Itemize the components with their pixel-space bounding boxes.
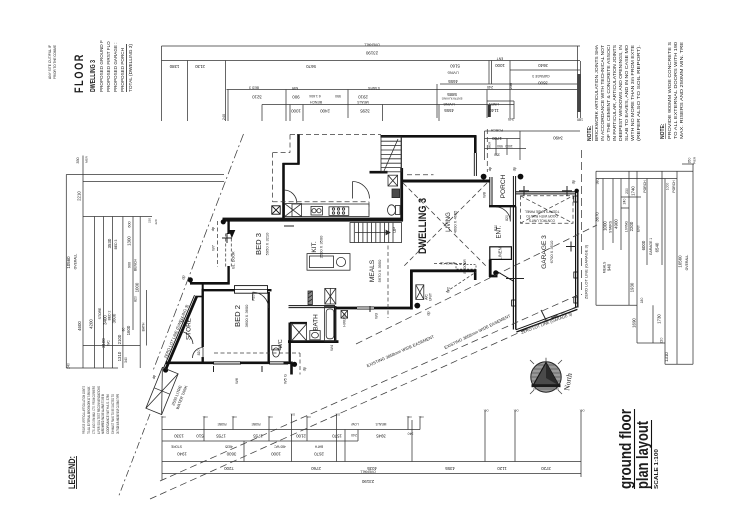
svg-text:PORCH: PORCH — [643, 180, 647, 193]
svg-text:23190: 23190 — [365, 51, 378, 56]
svg-text:1140: 1140 — [489, 108, 499, 113]
svg-text:2130: 2130 — [195, 64, 205, 69]
boundary dash-dot west — [153, 134, 244, 372]
svg-text:550: 550 — [335, 94, 341, 98]
svg-text:3490: 3490 — [553, 136, 563, 141]
svg-text:180: 180 — [640, 298, 644, 304]
svg-text:GARAGE 3: GARAGE 3 — [532, 74, 549, 78]
wall meals south — [335, 307, 413, 310]
svg-text:4200: 4200 — [89, 319, 94, 329]
riser top marks — [160, 409, 584, 420]
roof dash wip — [368, 202, 370, 217]
svg-text:IN ACCORDANCE WITH TECHNICAL N: IN ACCORDANCE WITH TECHNICAL NOT — [600, 44, 605, 141]
svg-text:6 1.604: 6 1.604 — [309, 94, 320, 98]
staircase lower flight — [350, 223, 402, 243]
stair up arrow — [355, 232, 390, 234]
store door arc — [182, 332, 194, 345]
wall chimney vertical — [297, 134, 300, 165]
svg-text:BI. DOOR: BI. DOOR — [463, 259, 467, 274]
wall linen room — [490, 247, 512, 260]
living roof cross B — [403, 183, 487, 267]
svg-text:180: 180 — [577, 118, 583, 122]
svg-text:TO ALL EXTERNAL DOORS WITH 190: TO ALL EXTERNAL DOORS WITH 190 — [673, 41, 678, 139]
tick verticals top chains — [161, 46, 163, 121]
boundary dash lower-left — [118, 414, 150, 498]
svg-text:PROPOSED GARAGE :: PROPOSED GARAGE : — [113, 42, 118, 92]
svg-text:BATH: BATH — [142, 322, 146, 331]
svg-text:PORCH: PORCH — [500, 174, 507, 198]
svg-text:1310: 1310 — [117, 351, 122, 361]
svg-text:OG.: OG. — [513, 409, 518, 413]
dim line garage right short — [510, 69, 580, 71]
svg-text:2760: 2760 — [311, 466, 321, 471]
wall bath north double — [289, 305, 336, 307]
svg-text:PORCH: PORCH — [672, 180, 676, 193]
svg-text:OF THE CEMENT & CONCRETE ASSOC: OF THE CEMENT & CONCRETE ASSOCI — [606, 45, 611, 141]
svg-text:1000: 1000 — [603, 221, 608, 231]
svg-text:STORE: STORE — [98, 307, 102, 319]
svg-text:2100: 2100 — [101, 338, 106, 348]
svg-text:1300: 1300 — [127, 236, 132, 246]
svg-text:5950 X 3210: 5950 X 3210 — [265, 232, 270, 255]
svg-text:2910: 2910 — [358, 95, 368, 100]
svg-text:340: 340 — [124, 357, 128, 363]
window w3 in meals wall — [357, 307, 374, 310]
svg-text:OVERALL: OVERALL — [74, 254, 78, 270]
svg-text:WITH NO MORE THAN 3m FROM EXTE: WITH NO MORE THAN 3m FROM EXTE — [630, 45, 635, 141]
svg-text:ZERO LOT LINE (GARAGE 3): ZERO LOT LINE (GARAGE 3) — [584, 244, 589, 299]
dp dot bed3 nw — [221, 219, 226, 224]
downpipe junction dots — [163, 174, 579, 373]
svg-text:1730: 1730 — [657, 314, 662, 324]
row D line — [162, 473, 581, 475]
svg-text:240: 240 — [222, 114, 226, 120]
wall wc north — [290, 322, 307, 324]
svg-text:OG.: OG. — [290, 413, 295, 417]
svg-text:820: 820 — [134, 296, 138, 302]
svg-text:3670: 3670 — [595, 212, 600, 222]
svg-text:6540: 6540 — [655, 242, 660, 252]
svg-text:dp: dp — [210, 226, 215, 231]
svg-text:MAX. RISERS AND 250MM MIN. TRE: MAX. RISERS AND 250MM MIN. TRE — [679, 42, 684, 139]
svg-text:1690: 1690 — [632, 318, 637, 328]
svg-text:3945: 3945 — [376, 434, 386, 439]
zero lot dashed garage east — [581, 150, 583, 295]
svg-text:OUTSIDE AIR AND BE SELF CLOSIN: OUTSIDE AIR AND BE SELF CLOSING TYPE — [115, 394, 120, 434]
wall wip north — [370, 171, 388, 174]
svg-text:LOW: LOW — [351, 422, 358, 426]
svg-text:NOTE:: NOTE: — [587, 125, 593, 141]
right chain verticals — [595, 171, 597, 305]
svg-text:BATH: BATH — [313, 314, 320, 331]
dp dot tank top — [163, 367, 168, 372]
svg-text:2210: 2210 — [77, 191, 82, 201]
svg-text:1000: 1000 — [291, 109, 301, 114]
svg-text:LIVING: LIVING — [447, 71, 458, 75]
overall vertical — [65, 175, 67, 369]
north ticks — [530, 358, 562, 394]
svg-text:dp: dp — [151, 374, 156, 379]
svg-text:STAIRS: STAIRS — [609, 220, 613, 233]
top connectors — [66, 174, 224, 176]
svg-text:1000: 1000 — [666, 183, 670, 191]
pier hatch bath-meals corner — [341, 311, 348, 319]
svg-text:OG.: OG. — [406, 415, 411, 419]
svg-text:950: 950 — [497, 144, 503, 148]
svg-text:OG.: OG. — [483, 409, 488, 413]
note block 1: brickwork articulation — [587, 44, 641, 141]
wall bed3 west upper — [227, 220, 229, 235]
pier bumps garage — [574, 196, 578, 202]
svg-text:plan layout: plan layout — [633, 421, 652, 489]
hatched pier bath window — [308, 291, 312, 305]
svg-text:W2: W2 — [446, 286, 451, 293]
svg-text:1930: 1930 — [630, 282, 635, 292]
svg-text:MEALS: MEALS — [369, 259, 376, 282]
svg-text:4555: 4555 — [444, 108, 454, 113]
roof dash north parapet — [290, 134, 381, 136]
dim line second — [162, 60, 581, 62]
second vertical — [82, 156, 84, 369]
svg-text:W7: W7 — [211, 244, 216, 251]
svg-text:ENT: ENT — [497, 57, 504, 61]
svg-text:STAIRS: STAIRS — [367, 86, 380, 90]
svg-text:PROPOSED PORCH: PROPOSED PORCH — [120, 48, 125, 92]
svg-text:LIVING: LIVING — [446, 212, 452, 232]
svg-text:OG.: OG. — [305, 415, 310, 419]
svg-text:LIVING: LIVING — [443, 102, 454, 106]
svg-text:LINEN: LINEN — [498, 247, 503, 259]
wall porch west double — [489, 177, 491, 207]
svg-text:1755: 1755 — [216, 434, 226, 439]
svg-text:900: 900 — [128, 262, 132, 268]
svg-text:IN PARTICULAR, ARTICULATION JO: IN PARTICULAR, ARTICULATION JOINTS — [612, 45, 617, 141]
dp dot garage ne — [575, 189, 579, 193]
svg-text:220: 220 — [660, 338, 664, 344]
roof dash chimney top — [289, 135, 291, 153]
upper floor dash meals — [387, 246, 389, 319]
svg-text:BED 3: BED 3 — [114, 239, 118, 249]
bed2 entry door arc — [193, 348, 204, 359]
svg-text:dp: dp — [181, 275, 186, 280]
wall bed3 west lower — [227, 266, 229, 285]
svg-text:FLOOR: FLOOR — [74, 53, 86, 93]
dp dot wc corner — [292, 362, 297, 367]
tick a1 kitchen — [284, 225, 294, 227]
svg-text:dp: dp — [571, 179, 576, 184]
svg-text:ENTRY/LIVING: ENTRY/LIVING — [441, 97, 462, 101]
north circle — [531, 362, 561, 392]
wip door arc — [353, 182, 370, 199]
dp dot ent corner — [493, 270, 498, 275]
svg-text:GARAGE 1: GARAGE 1 — [649, 238, 653, 255]
wall ent north — [489, 205, 516, 207]
svg-text:4600: 4600 — [77, 321, 82, 331]
svg-text:230: 230 — [625, 188, 629, 194]
svg-text:BED 3: BED 3 — [254, 233, 263, 255]
wall garage chamfer — [516, 307, 577, 330]
tick bed2 south — [213, 366, 215, 372]
svg-text:DOOR WITH R/AUTO: DOOR WITH R/AUTO — [526, 214, 558, 218]
tick garage mid a — [566, 246, 576, 248]
svg-text:2500 X 3500: 2500 X 3500 — [319, 235, 324, 258]
svg-text:OVERALL: OVERALL — [685, 255, 689, 271]
wall wc east — [289, 323, 291, 363]
svg-text:1000: 1000 — [271, 452, 281, 457]
wall bed2 south with windows — [166, 361, 215, 364]
wall long north band — [223, 218, 404, 222]
svg-text:820: 820 — [197, 350, 201, 356]
legend block bottom-left — [67, 386, 120, 489]
svg-text:WC: WC — [278, 339, 284, 348]
note block 2: concrete steps — [660, 41, 684, 139]
bed2 robe door arc — [253, 292, 269, 308]
svg-text:230: 230 — [509, 83, 513, 89]
dim line living 4655 — [440, 83, 580, 85]
svg-text:W8: W8 — [482, 191, 487, 198]
wall store north stub — [196, 296, 204, 298]
svg-text:LINEN: LINEN — [488, 102, 499, 106]
wall bed3 southwest from dp — [190, 282, 230, 285]
svg-text:1000: 1000 — [135, 282, 140, 292]
cooktop — [329, 207, 349, 216]
easement dash upper — [356, 225, 597, 344]
wall meals east vertical — [410, 270, 413, 310]
svg-text:OG.: OG. — [579, 409, 584, 413]
svg-text:1120: 1120 — [497, 466, 507, 471]
roof dash over kitchen bench — [273, 201, 369, 203]
roof dash kitchen west — [272, 153, 274, 202]
tick w7 — [222, 237, 232, 239]
svg-text:820: 820 — [505, 215, 509, 221]
svg-text:240: 240 — [67, 363, 71, 369]
svg-text:W5 G: W5 G — [283, 374, 288, 384]
wall garage west double — [512, 207, 514, 330]
svg-text:600: 600 — [128, 221, 132, 227]
svg-text:STORE: STORE — [186, 318, 193, 340]
svg-text:OVERALL: OVERALL — [364, 43, 380, 47]
svg-text:10560: 10560 — [678, 255, 683, 268]
svg-text:PIER: PIER — [693, 156, 697, 164]
bi-fold door dashed meals — [434, 263, 466, 265]
svg-text:SLAB TO EAVES, AND IN NO CASE: SLAB TO EAVES, AND IN NO CASE MO — [624, 44, 629, 141]
svg-text:6000: 6000 — [641, 240, 646, 250]
svg-text:5160: 5160 — [450, 63, 460, 68]
totals underline — [126, 44, 128, 92]
bath tub — [324, 307, 335, 342]
svg-text:R20: R20 — [252, 294, 256, 300]
sink — [311, 206, 322, 215]
robe recess bed2 — [235, 286, 268, 294]
svg-text:BRICKWORK ARTICULATION JOINTS: BRICKWORK ARTICULATION JOINTS SHA — [594, 45, 599, 141]
svg-text:dp: dp — [487, 166, 492, 171]
svg-text:1740: 1740 — [631, 186, 636, 196]
north triangle — [533, 363, 559, 386]
svg-text:MEALS: MEALS — [357, 100, 369, 104]
sliding door bed3 dashed — [225, 234, 227, 267]
kitchen door arc west — [284, 190, 297, 203]
svg-text:5670 X 3950: 5670 X 3950 — [377, 259, 382, 282]
garage panel door dashed box — [521, 196, 574, 223]
wall porch east double — [512, 176, 514, 207]
svg-text:MER: MER — [488, 141, 492, 149]
svg-text:WC: WC — [107, 340, 111, 346]
wall elbow horizontal — [283, 163, 300, 165]
riser ticks above row A — [161, 417, 163, 481]
right chain horizontals — [596, 170, 693, 172]
wall step store/bed2 — [202, 283, 204, 290]
svg-text:(REFER ALSO TO SOIL REPORT).: (REFER ALSO TO SOIL REPORT). — [636, 45, 641, 141]
svg-text:LIVING: LIVING — [625, 221, 629, 232]
svg-text:940: 940 — [607, 263, 612, 271]
svg-text:1570: 1570 — [332, 434, 342, 439]
tick garage left a — [506, 278, 524, 280]
svg-text:1940: 1940 — [177, 452, 187, 457]
wall zero lot diagonal store — [166, 296, 197, 369]
tick chamfer a — [541, 310, 546, 320]
svg-text:ENT: ENT — [637, 225, 641, 232]
svg-text:DEEPEST WINDOWS AND OPENINGS,: DEEPEST WINDOWS AND OPENINGS, IN — [618, 45, 623, 141]
svg-text:2100: 2100 — [117, 334, 122, 344]
mid connector — [83, 216, 152, 218]
svg-text:LEGEND:: LEGEND: — [67, 456, 77, 489]
svg-text:PROPOSED FIRST FLO: PROPOSED FIRST FLO — [106, 41, 111, 92]
wall bath east — [334, 306, 336, 342]
drawing title bottom-right — [616, 409, 660, 489]
wall bed2 west — [201, 289, 203, 347]
svg-text:340: 340 — [408, 432, 414, 436]
svg-text:CONTROL UNITS: CONTROL UNITS — [529, 219, 555, 223]
svg-text:HWU/SL: HWU/SL — [343, 313, 347, 326]
svg-text:480 WC: 480 WC — [274, 445, 286, 449]
svg-text:5670: 5670 — [306, 64, 316, 69]
wall ent-garage diagonal — [498, 272, 514, 282]
wip hatch shelf — [388, 175, 398, 186]
svg-text:GARAGE 3: GARAGE 3 — [541, 235, 548, 269]
svg-text:510: 510 — [196, 434, 204, 439]
svg-text:PRIOR TO THE COMME: PRIOR TO THE COMME — [53, 45, 57, 79]
svg-text:BENCH: BENCH — [134, 259, 138, 271]
svg-text:STORE: STORE — [171, 445, 182, 449]
svg-text:ROBE: ROBE — [217, 422, 226, 426]
svg-text:240: 240 — [623, 199, 627, 205]
svg-text:NOTE:: NOTE: — [660, 123, 666, 139]
dp dot porch west — [481, 174, 487, 180]
roof dash kitchen north-west — [273, 152, 290, 154]
inner verticals — [93, 217, 95, 369]
svg-text:4355: 4355 — [445, 466, 455, 471]
svg-text:PROPOSED GROUND F: PROPOSED GROUND F — [99, 40, 104, 92]
svg-text:BED 3: BED 3 — [249, 86, 259, 90]
svg-text:2200: 2200 — [629, 221, 634, 231]
water tank — [146, 367, 178, 414]
svg-text:OG.: OG. — [160, 415, 165, 419]
svg-text:W3: W3 — [374, 312, 379, 319]
svg-text:OG.: OG. — [231, 415, 236, 419]
dim line linen short — [487, 100, 514, 102]
svg-text:dp: dp — [512, 166, 517, 171]
svg-text:900: 900 — [292, 95, 300, 100]
svg-text:1310: 1310 — [664, 352, 669, 362]
row A line — [162, 429, 420, 431]
title block: top-left sheet notes — [48, 40, 133, 93]
svg-text:4835: 4835 — [225, 445, 233, 449]
svg-text:BED 2: BED 2 — [233, 305, 242, 327]
island bench — [307, 254, 350, 271]
dp dot meals se — [414, 303, 420, 309]
wc pan — [273, 348, 280, 357]
upper floor dash bed3 west — [217, 221, 219, 267]
svg-text:BATH: BATH — [314, 445, 323, 449]
svg-text:350: 350 — [494, 153, 500, 157]
staircase upper flight — [381, 137, 401, 172]
bed3 door slide arrow — [229, 230, 236, 238]
svg-text:240: 240 — [487, 85, 493, 89]
svg-text:6700 X 3510: 6700 X 3510 — [549, 240, 554, 263]
jamb solid mark — [488, 105, 491, 117]
row C line — [162, 461, 581, 463]
svg-text:W4: W4 — [329, 344, 334, 351]
ac unit box — [416, 285, 424, 300]
svg-text:3530: 3530 — [107, 238, 112, 248]
fridge space — [285, 204, 302, 217]
upper floor dash bed2 south — [214, 352, 300, 354]
svg-text:PROVIDE 900MM WIDE CONCRETE S: PROVIDE 900MM WIDE CONCRETE S — [667, 42, 672, 139]
wall kitchen west — [282, 163, 285, 220]
svg-text:OVERALL: OVERALL — [360, 470, 376, 474]
svg-text:3210: 3210 — [252, 95, 262, 100]
svg-text:2670: 2670 — [314, 452, 324, 457]
svg-text:3600: 3600 — [112, 313, 117, 323]
svg-text:DWELLING 3: DWELLING 3 — [88, 60, 97, 92]
svg-text:3600 X 3600: 3600 X 3600 — [244, 304, 249, 327]
living roof cross A — [403, 183, 487, 267]
living roof dash horizontal — [407, 174, 434, 176]
vanity — [310, 331, 320, 340]
svg-text:4600 X 4655: 4600 X 4655 — [453, 210, 458, 233]
svg-text:R20: R20 — [494, 225, 498, 231]
easement dash lower — [150, 306, 578, 499]
svg-text:DWELLING 3: DWELLING 3 — [417, 198, 429, 254]
window east upper double — [473, 153, 475, 176]
ent entry door arc — [496, 207, 511, 222]
lower connectors — [66, 367, 118, 369]
wall east window upper — [474, 136, 477, 153]
svg-text:340: 340 — [508, 117, 514, 121]
svg-text:3640: 3640 — [538, 63, 548, 68]
svg-text:7200: 7200 — [224, 466, 234, 471]
wall ent southwest corner — [489, 260, 498, 278]
svg-text:dp: dp — [426, 311, 431, 316]
dp dot porch east — [518, 174, 524, 180]
wall garage east double — [575, 192, 577, 308]
svg-text:SCALE 1:100: SCALE 1:100 — [654, 449, 660, 489]
wall north over stairs — [381, 135, 477, 138]
north hatch — [531, 365, 561, 389]
upper floor dash wc — [299, 353, 301, 375]
svg-text:MER: MER — [85, 155, 89, 163]
svg-text:1380: 1380 — [169, 64, 179, 69]
svg-text:BENCH: BENCH — [310, 100, 322, 104]
shower — [292, 324, 307, 341]
svg-text:5885: 5885 — [447, 92, 457, 97]
svg-text:1000: 1000 — [495, 63, 505, 68]
row B line — [162, 440, 358, 442]
tick meals w3 — [369, 306, 371, 312]
svg-text:3295: 3295 — [360, 109, 370, 114]
dimension tick marks on plan — [214, 186, 577, 372]
easement dash middle — [160, 295, 578, 481]
